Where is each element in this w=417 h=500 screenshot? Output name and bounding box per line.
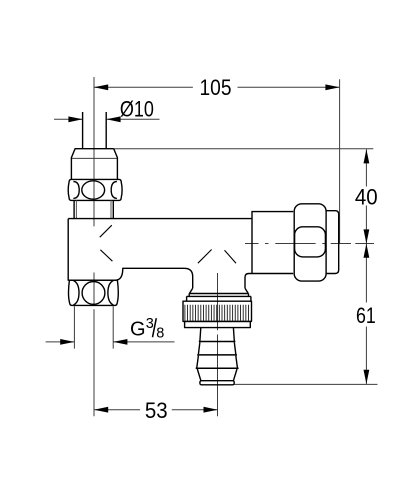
svg-text:Ø10: Ø10 — [120, 96, 154, 121]
svg-text:105: 105 — [200, 75, 232, 100]
svg-text:G: G — [130, 318, 146, 340]
svg-text:61: 61 — [356, 303, 376, 328]
svg-text:3: 3 — [146, 316, 154, 332]
svg-text:40: 40 — [355, 184, 378, 209]
svg-text:53: 53 — [145, 398, 168, 423]
svg-text:8: 8 — [156, 325, 164, 341]
